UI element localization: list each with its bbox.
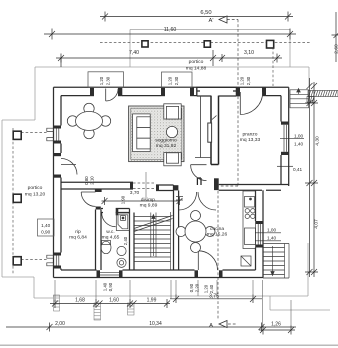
svg-text:cucina: cucina	[210, 226, 224, 232]
svg-text:1,90: 1,90	[121, 195, 126, 204]
cucina table	[176, 211, 215, 253]
svg-text:1,40: 1,40	[103, 282, 108, 291]
svg-text:mq 6,84: mq 6,84	[69, 235, 87, 241]
niche boxes top wall	[88, 72, 192, 88]
svg-text:4,07: 4,07	[314, 219, 320, 229]
pocket door	[195, 96, 217, 158]
stem lower stubs	[197, 178, 201, 185]
svg-text:2,60: 2,60	[334, 44, 338, 54]
platform outline	[2, 30, 330, 311]
window glazing lines	[47, 125, 287, 275]
svg-text:1,00: 1,00	[267, 228, 277, 233]
svg-text:2,00: 2,00	[55, 321, 65, 327]
walkway hatch top right	[307, 91, 338, 103]
band cucina/pranzo	[219, 185, 289, 191]
dashed roof lines	[13, 43, 310, 275]
svg-text:mq 13,20: mq 13,20	[25, 192, 46, 198]
svg-text:1,20: 1,20	[99, 76, 104, 85]
svg-text:7,40: 7,40	[129, 50, 139, 56]
svg-text:portico: portico	[189, 59, 204, 65]
svg-text:0,41: 0,41	[293, 167, 303, 172]
portico columns top	[142, 40, 274, 48]
kitchen counter	[241, 191, 256, 266]
left wall inner	[60, 96, 62, 270]
jamb stubs solid	[54, 88, 289, 278]
svg-text:mq 15,26: mq 15,26	[207, 232, 228, 238]
right wall pranzo inner	[280, 96, 282, 185]
svg-text:mq 9,89: mq 9,89	[140, 203, 158, 209]
external stair top right	[290, 89, 309, 108]
svg-text:1,26: 1,26	[271, 322, 281, 328]
svg-text:rip: rip	[75, 229, 81, 235]
svg-text:1,99: 1,99	[147, 298, 157, 304]
internal band soggiorno south	[61, 182, 133, 189]
cucina double door	[176, 192, 216, 210]
doors	[61, 89, 263, 271]
internal stair	[134, 212, 173, 270]
svg-text:disimp.: disimp.	[141, 197, 157, 203]
rip door	[81, 192, 95, 206]
pier T bar	[197, 87, 237, 96]
wc door	[102, 213, 116, 227]
svg-text:3,75: 3,75	[209, 294, 219, 300]
svg-text:1,20: 1,20	[240, 76, 245, 85]
bottom wall inner	[61, 269, 256, 271]
svg-text:3,70: 3,70	[130, 190, 140, 196]
svg-text:mq 31,92: mq 31,92	[156, 143, 177, 149]
entrance soggiorno door	[106, 89, 118, 102]
svg-text:1,20: 1,20	[168, 76, 173, 85]
cucina back door	[198, 251, 217, 270]
external stair bottom right	[263, 244, 289, 279]
svg-text:1,60: 1,60	[109, 298, 119, 304]
internal band disimp/cucina	[156, 185, 174, 191]
svg-text:w.c.: w.c.	[106, 230, 114, 235]
svg-text:4,30: 4,30	[315, 136, 321, 146]
svg-text:6,50: 6,50	[200, 10, 211, 16]
svg-text:2,30: 2,30	[246, 76, 251, 85]
soggiorno south door	[191, 165, 207, 181]
svg-text:2,30: 2,30	[174, 76, 179, 85]
svg-text:0,80: 0,80	[84, 176, 89, 185]
right wall pranzo outer	[288, 87, 290, 186]
svg-text:0,90: 0,90	[189, 283, 194, 292]
left wall door to portico	[61, 159, 77, 175]
portico columns left	[13, 131, 21, 265]
bottom wall outer	[54, 277, 264, 279]
svg-text:1,40: 1,40	[41, 223, 51, 228]
svg-text:mq 13,33: mq 13,33	[240, 137, 261, 143]
ladder hatches bottom	[54, 295, 135, 320]
texts	[200, 10, 213, 24]
soggiorno sofa group	[133, 104, 182, 166]
svg-text:2,30: 2,30	[106, 76, 111, 85]
svg-text:10,34: 10,34	[149, 321, 162, 327]
wc fixtures	[101, 213, 130, 267]
svg-text:1,00: 1,00	[294, 134, 304, 139]
bottom border gray line	[0, 345, 338, 346]
svg-text:3,10: 3,10	[244, 50, 254, 56]
svg-text:A': A'	[209, 18, 214, 24]
svg-text:1,68: 1,68	[75, 298, 85, 304]
svg-text:1,40: 1,40	[267, 236, 277, 241]
svg-text:2,40: 2,40	[209, 284, 214, 293]
svg-text:2,20: 2,20	[195, 283, 200, 292]
svg-text:mq 4,65: mq 4,65	[102, 235, 120, 241]
svg-text:pranzo: pranzo	[243, 132, 258, 138]
svg-text:1,20: 1,20	[204, 284, 209, 293]
section line A-A'	[218, 20, 238, 325]
cucina right wall	[256, 190, 264, 277]
wc/stair wall	[130, 209, 135, 271]
svg-text:0,90: 0,90	[108, 282, 113, 291]
left wall outer	[53, 87, 55, 277]
stair/cucina wall	[174, 185, 179, 270]
carpet soggiorno	[129, 106, 184, 162]
dining table soggiorno	[67, 103, 110, 138]
svg-text:mq 14,88: mq 14,88	[186, 66, 207, 72]
svg-text:portico: portico	[28, 185, 43, 191]
wc top wall	[101, 209, 130, 213]
pranzo top door	[240, 92, 262, 115]
svg-text:soggiorno: soggiorno	[155, 138, 177, 144]
svg-text:2,40: 2,40	[123, 236, 128, 245]
svg-text:2,10: 2,10	[90, 176, 95, 185]
svg-text:11,60: 11,60	[164, 27, 177, 33]
top wall inner	[61, 95, 281, 97]
svg-text:0,90: 0,90	[41, 230, 51, 235]
svg-text:1,40: 1,40	[294, 142, 304, 147]
rip/wc wall	[96, 189, 102, 270]
svg-text:A: A	[209, 323, 213, 329]
top wall outer	[54, 86, 289, 88]
